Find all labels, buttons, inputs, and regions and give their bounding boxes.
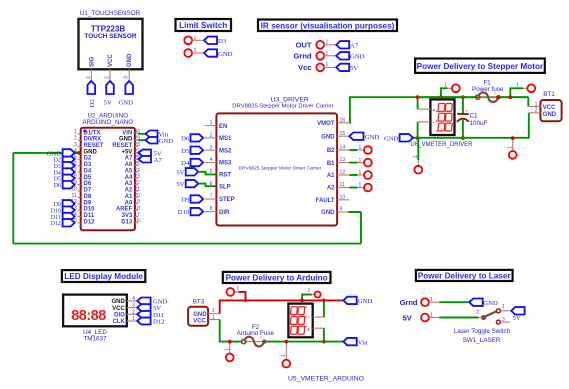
arduino left pin 1 stub — [78, 133, 81, 135]
aux connector 1 stub — [448, 87, 452, 89]
arduino GND tag on wire — [63, 149, 75, 156]
svg-text:4: 4 — [210, 157, 213, 163]
svg-text:GND: GND — [47, 151, 62, 158]
mid tag 5V to SLP — [186, 180, 199, 187]
arduino left tag D12 — [63, 219, 75, 226]
svg-text:DIO: DIO — [114, 313, 125, 319]
IR sensor stub Vcc — [324, 66, 336, 68]
svg-text:D4: D4 — [54, 170, 61, 176]
aux connector A1 circle — [226, 288, 234, 296]
svg-text:D9: D9 — [181, 197, 190, 204]
mid tag D5 to driver — [191, 147, 204, 154]
svg-text:EN: EN — [219, 124, 227, 130]
label tag D2 under pin 1 — [88, 81, 96, 94]
arduino right pin 26 stub — [135, 158, 138, 160]
svg-text:GND: GND — [321, 210, 335, 216]
svg-text:25: 25 — [134, 161, 140, 167]
switch SW1 contact 1 circle — [496, 309, 500, 313]
svg-text:22: 22 — [134, 180, 140, 186]
svg-text:14: 14 — [340, 145, 346, 151]
driver right pin 9 stub — [337, 211, 349, 213]
svg-text:20: 20 — [134, 193, 140, 199]
arduino right pin 21 stub — [135, 190, 138, 192]
svg-text:A7: A7 — [154, 157, 163, 164]
svg-text:U6_VMETER_DRIVER: U6_VMETER_DRIVER — [411, 142, 474, 148]
svg-text:10: 10 — [340, 194, 346, 200]
switch SW1 contact 3 circle — [496, 320, 500, 324]
svg-text:Vcc: Vcc — [298, 63, 311, 72]
arduino power section title box — [223, 272, 331, 283]
arduino left pin 12 stub — [78, 203, 81, 205]
limit switch pin J-GND circle — [184, 49, 192, 57]
limit switch tag GND — [204, 49, 217, 56]
arduino power Vin tag — [343, 338, 356, 345]
aux connector 2 stub — [523, 87, 527, 89]
svg-text:D7: D7 — [84, 188, 92, 194]
IR sensor section title box — [258, 20, 397, 32]
svg-text:D4: D4 — [84, 169, 92, 175]
svg-text:BT3: BT3 — [193, 299, 205, 306]
battery BT1 pin2 stub — [529, 112, 541, 114]
label tag GND under pin 3 — [125, 81, 133, 94]
touch sensor U1 body — [79, 19, 143, 70]
voltmeter U6 - pin stub — [418, 121, 431, 123]
arduino right pin 18 stub — [135, 209, 138, 211]
aux connector 2 circle — [527, 84, 535, 92]
svg-text:GND: GND — [384, 136, 399, 143]
wire BT3 GND up to red rail — [220, 300, 344, 313]
connector circle B2 — [364, 146, 372, 154]
svg-text:RESET: RESET — [112, 143, 132, 149]
aux connector A2 circle — [315, 292, 321, 298]
connector stub B2 — [358, 149, 365, 151]
svg-text:A1: A1 — [327, 173, 335, 179]
arduino 5V tag — [139, 150, 152, 157]
wire driver VMOT to power rail — [349, 97, 528, 123]
arduino left tag D11 — [63, 213, 75, 220]
svg-text:1: 1 — [413, 155, 419, 158]
wire driver A1 to connector — [349, 174, 357, 176]
svg-text:1: 1 — [240, 336, 242, 340]
svg-text:1: 1 — [502, 304, 505, 310]
laser Grnd connector circle — [421, 298, 429, 306]
svg-text:12: 12 — [340, 170, 346, 176]
svg-text:FAULT: FAULT — [316, 198, 335, 204]
voltmeter U6 digits — [438, 104, 452, 112]
aux connector A1 stub — [234, 291, 238, 293]
junction red rail / aux connector 2 — [300, 299, 304, 303]
wire to stepper aux connector 1 — [441, 88, 448, 97]
LED display tag D12 — [137, 318, 150, 325]
svg-text:GND: GND — [218, 51, 233, 58]
svg-text:GND: GND — [358, 298, 373, 305]
aux connector 1 circle — [452, 84, 460, 92]
svg-text:U5_VMETER_ARDUINO: U5_VMETER_ARDUINO — [288, 375, 364, 382]
driver right pin 15 stub — [337, 135, 349, 137]
svg-text:D5: D5 — [54, 177, 61, 183]
driver left pin 8 stub — [205, 211, 217, 213]
svg-text:TOUCH SENSOR: TOUCH SENSOR — [84, 33, 137, 40]
svg-text:2: 2 — [105, 76, 111, 79]
svg-text:2: 2 — [74, 136, 77, 142]
limit switch row1 stub — [192, 39, 204, 41]
svg-text:Power fuse: Power fuse — [472, 86, 504, 93]
driver left pin 3 stub — [205, 149, 217, 151]
aux connector 3 stub — [417, 160, 419, 166]
svg-text:A2: A2 — [327, 186, 335, 192]
battery BT1 body — [540, 100, 561, 121]
wire power rail to C1 — [462, 97, 464, 114]
arduino U2 body — [81, 128, 135, 230]
svg-text:23: 23 — [134, 174, 140, 180]
svg-text:11: 11 — [340, 182, 345, 188]
driver right pin 13 stub — [337, 162, 349, 164]
wire driver GND pin9 down to ground loop — [349, 211, 361, 213]
wire power rail corner down to BT1 pin1 — [527, 97, 529, 106]
driver right pin 12 stub — [337, 174, 349, 176]
arduino right pin 28 stub — [135, 146, 138, 148]
driver right pin 10 stub — [337, 199, 349, 201]
svg-text:CLK: CLK — [112, 319, 125, 325]
LED display section title box — [62, 270, 145, 282]
svg-text:D3: D3 — [218, 38, 227, 45]
svg-text:Power Delivery to Laser: Power Delivery to Laser — [418, 272, 512, 281]
arduino A7 tag — [139, 156, 152, 163]
junction power rail / C1 — [461, 95, 465, 99]
arduino right pin 25 stub — [135, 165, 138, 167]
svg-text:RESET: RESET — [84, 143, 104, 149]
svg-text:GND: GND — [321, 134, 335, 140]
svg-text:1: 1 — [535, 101, 538, 107]
svg-text:VCC: VCC — [193, 319, 206, 325]
mid tag D4 to driver — [191, 159, 204, 166]
svg-text:2: 2 — [260, 336, 262, 340]
mid tag D9 to driver — [191, 195, 204, 202]
svg-text:1: 1 — [507, 146, 513, 149]
driver left pin 7 stub — [205, 198, 217, 200]
svg-text:A6: A6 — [125, 162, 133, 168]
svg-text:1: 1 — [308, 288, 311, 294]
capacitor C1 top plate — [457, 113, 469, 115]
svg-text:GND: GND — [119, 137, 133, 143]
wire arduino GND to ground loop (left segment) — [13, 152, 80, 154]
stepper power section title box — [415, 59, 545, 73]
arduino left pin 4 stub — [78, 152, 81, 154]
svg-text:5V: 5V — [513, 315, 521, 322]
LED display tag 5V — [137, 304, 150, 311]
svg-text:D6: D6 — [84, 181, 92, 187]
svg-text:1: 1 — [444, 83, 447, 89]
svg-text:1: 1 — [132, 316, 135, 322]
IR sensor connector circle Vcc — [316, 64, 324, 72]
svg-text:D12: D12 — [84, 219, 96, 225]
svg-text:21: 21 — [134, 186, 140, 192]
laser Grnd stub — [429, 301, 440, 303]
wire BT1 pin2 to ground rail — [413, 113, 529, 138]
svg-text:16: 16 — [340, 117, 346, 123]
svg-text:A5: A5 — [125, 169, 133, 175]
switch SW1 common stub — [479, 317, 482, 319]
LED display tag GND — [137, 298, 150, 305]
arduino left pin 8 stub — [78, 177, 81, 179]
svg-text:MS2: MS2 — [219, 148, 232, 154]
driver GND pin15 tag — [349, 133, 363, 140]
svg-text:GND: GND — [84, 149, 98, 155]
svg-text:16: 16 — [134, 218, 140, 224]
svg-text:D5: D5 — [181, 148, 190, 155]
svg-text:D9: D9 — [84, 200, 92, 206]
capacitor C1 bottom plate — [457, 119, 469, 122]
svg-text:1: 1 — [281, 354, 287, 357]
driver U3 body — [216, 113, 337, 225]
junction red rail / aux connector 1 — [244, 299, 247, 302]
svg-text:D5: D5 — [84, 175, 92, 181]
aux connector A4 stub — [285, 342, 287, 360]
arduino left tag D9 — [63, 200, 75, 207]
wire C1 to ground rail — [462, 120, 464, 138]
wire U6 junction to fuse F1 — [418, 96, 476, 98]
svg-text:GND: GND — [159, 138, 174, 145]
svg-text:D9: D9 — [54, 202, 61, 208]
mid tag D6 to driver — [191, 134, 204, 141]
svg-text:D2: D2 — [89, 99, 96, 107]
svg-text:A7: A7 — [125, 156, 133, 162]
svg-text:GND: GND — [119, 100, 134, 107]
arduino left pin 10 stub — [78, 190, 81, 192]
IR sensor tag A7 — [336, 41, 349, 48]
wire laser 5V to switch — [439, 317, 478, 319]
svg-text:3: 3 — [124, 76, 130, 79]
svg-text:D11: D11 — [51, 215, 61, 221]
driver left pin 1 stub — [205, 125, 217, 127]
wire ground loop left vertical — [12, 153, 14, 244]
svg-text:1: 1 — [516, 83, 519, 89]
svg-text:3: 3 — [210, 145, 213, 151]
svg-text:4: 4 — [132, 296, 135, 302]
switch SW1 common contact — [481, 315, 486, 320]
laser 5V stub — [429, 317, 440, 319]
svg-text:5V: 5V — [176, 169, 184, 176]
svg-text:3: 3 — [74, 142, 77, 148]
junction power rail / aux connector 2 — [508, 95, 512, 99]
voltmeter U6 + pin stub — [418, 108, 431, 110]
voltmeter ground tag GND — [400, 134, 413, 141]
LED display pin 2 stub — [127, 313, 137, 315]
svg-text:5V: 5V — [403, 313, 412, 322]
connector stub A1 — [358, 174, 365, 176]
arduino right pin 19 stub — [135, 203, 138, 205]
svg-text:2: 2 — [212, 308, 215, 314]
svg-text:1: 1 — [210, 120, 213, 126]
svg-text:88:88: 88:88 — [71, 308, 106, 324]
svg-text:VIN: VIN — [122, 130, 132, 136]
svg-text:D2: D2 — [54, 158, 61, 164]
svg-text:Vin: Vin — [358, 339, 368, 346]
svg-text:D10: D10 — [51, 209, 61, 215]
limit switch row2 stub — [192, 52, 204, 54]
svg-text:IR sensor (visualisation purpo: IR sensor (visualisation purposes) — [261, 21, 395, 30]
battery BT3 pin 2 stub — [208, 313, 220, 315]
touch sensor pin 2 stub — [109, 69, 111, 81]
svg-text:2: 2 — [494, 91, 496, 95]
svg-text:D3: D3 — [54, 164, 61, 170]
svg-text:D2: D2 — [84, 156, 92, 162]
battery BT3 pin 1 stub — [208, 319, 220, 321]
svg-text:15: 15 — [340, 131, 346, 137]
svg-text:DRV8825 Stepper Motor Driver C: DRV8825 Stepper Motor Driver Carrier — [239, 166, 322, 172]
svg-text:SW1_LASER: SW1_LASER — [463, 337, 501, 344]
wire ground loop to driver GND pin9 — [348, 211, 361, 213]
arduino left pin 15 stub — [78, 222, 81, 224]
arduino right pin 22 stub — [135, 184, 138, 186]
svg-text:1: 1 — [359, 145, 362, 151]
arduino right pin 24 stub — [135, 171, 138, 173]
wire to stepper aux connector 2 — [510, 88, 523, 97]
svg-text:D8: D8 — [84, 194, 92, 200]
svg-text:Laser Toggle Switch: Laser Toggle Switch — [454, 328, 511, 335]
svg-text:Grnd: Grnd — [294, 52, 312, 61]
arduino Vin tag — [146, 131, 158, 138]
svg-text:GND: GND — [483, 300, 498, 307]
junction green rail / aux connector A3 — [228, 340, 232, 344]
svg-text:3: 3 — [132, 303, 135, 309]
svg-text:SLP: SLP — [219, 184, 231, 190]
svg-text:2: 2 — [476, 310, 479, 316]
wire ground rail to aux connector 3 — [417, 138, 419, 160]
arduino left tag D6 — [63, 181, 75, 188]
svg-text:Power Delivery to Arduino: Power Delivery to Arduino — [226, 274, 328, 283]
junction at arduino GND pin — [77, 151, 81, 155]
svg-text:28: 28 — [134, 142, 140, 148]
svg-text:-: - — [308, 315, 310, 321]
wire driver A2 to connector — [349, 187, 357, 189]
label tag 5V under pin 2 — [106, 81, 114, 94]
svg-text:D12: D12 — [51, 221, 61, 227]
wire 5V tag to RST pin — [198, 172, 216, 175]
wire laser Grnd to GND tag — [439, 301, 469, 303]
svg-text:VCC: VCC — [543, 105, 556, 111]
connector stub A2 — [358, 187, 365, 189]
limit switch pin J-D3 circle — [184, 36, 192, 44]
driver left pin 2 stub — [205, 137, 217, 139]
svg-text:MS3: MS3 — [219, 161, 232, 167]
fuse F2 symbol — [244, 341, 265, 343]
laser GND tag — [469, 299, 482, 306]
svg-text:13: 13 — [340, 157, 346, 163]
arduino GND tag (right) — [146, 137, 158, 144]
arduino left pin 3 stub — [78, 146, 81, 148]
svg-text:B1: B1 — [327, 161, 335, 167]
IR sensor stub Grnd — [324, 55, 336, 57]
svg-text:VCC: VCC — [108, 54, 114, 67]
svg-text:+5V: +5V — [121, 149, 132, 155]
svg-text:TM1637: TM1637 — [83, 336, 107, 343]
svg-text:A7: A7 — [350, 42, 359, 49]
arduino left pin 6 stub — [78, 165, 81, 167]
arduino left pin 9 stub — [78, 184, 81, 186]
svg-text:D13: D13 — [121, 219, 133, 225]
touch sensor pin 1 stub — [90, 69, 92, 81]
limit switch tag D3 — [204, 37, 217, 44]
junction ground rail / U6 — [416, 136, 420, 140]
svg-text:A3: A3 — [125, 181, 133, 187]
IR sensor stub OUT — [324, 44, 336, 46]
svg-text:OUT: OUT — [296, 41, 312, 50]
arduino power GND tag — [343, 297, 356, 304]
arduino left tag D2 — [63, 156, 75, 163]
svg-text:17: 17 — [134, 212, 140, 218]
junction ground rail / aux connector 4 — [511, 136, 515, 140]
svg-text:DIR: DIR — [219, 210, 230, 216]
svg-text:SIG: SIG — [89, 56, 95, 67]
svg-text:GND: GND — [111, 299, 125, 305]
arduino left pin 2 stub — [78, 139, 81, 141]
svg-text:GND: GND — [193, 312, 207, 318]
driver right pin 14 stub — [337, 149, 349, 151]
switch SW1 contact1 stub — [500, 310, 511, 312]
svg-text:RST: RST — [219, 173, 231, 179]
svg-text:VCC: VCC — [112, 306, 125, 312]
wire U5 + pin down to green rail — [323, 328, 325, 341]
svg-text:D11: D11 — [84, 213, 95, 219]
mid tag 5V to RST — [186, 168, 199, 175]
connector stub B1 — [358, 162, 365, 164]
svg-text:D6: D6 — [54, 183, 61, 189]
LED display pin 4 stub — [127, 300, 137, 302]
aux connector 4 stub — [512, 138, 514, 151]
laser power section title box — [416, 270, 513, 281]
junction red rail / U5 — [322, 299, 326, 303]
driver left pin 4 stub — [205, 162, 217, 164]
connector circle A1 — [364, 171, 372, 179]
svg-text:D4: D4 — [181, 160, 190, 167]
svg-text:GND: GND — [350, 53, 365, 60]
limit switch section title box — [176, 19, 232, 31]
driver right pin 11 stub — [337, 187, 349, 189]
voltmeter U5 - pin stub — [313, 316, 324, 318]
arduino right pin 29 stub — [135, 139, 138, 141]
svg-text:2: 2 — [210, 133, 213, 139]
svg-text:24: 24 — [134, 167, 140, 173]
arduino right pin 17 stub — [135, 216, 138, 218]
svg-text:1: 1 — [359, 182, 362, 188]
svg-text:AREF: AREF — [116, 207, 133, 213]
svg-text:D12: D12 — [153, 319, 165, 326]
svg-text:VMOT: VMOT — [317, 121, 335, 127]
IR sensor connector circle Grnd — [316, 52, 324, 60]
wire BT3 VCC down to green rail — [220, 320, 242, 342]
svg-text:1: 1 — [224, 348, 230, 351]
fuse F1 symbol — [478, 96, 499, 98]
voltmeter U5 + pin stub — [313, 327, 324, 329]
LED display U4 body — [63, 295, 127, 327]
arduino left tag D4 — [63, 168, 75, 175]
svg-text:1: 1 — [474, 91, 476, 95]
arduino left tag D10 — [63, 206, 75, 213]
wire driver B2 to connector — [349, 149, 357, 151]
svg-text:9: 9 — [340, 207, 343, 213]
svg-text:STEP: STEP — [219, 197, 235, 203]
svg-text:BT1: BT1 — [543, 91, 555, 98]
svg-text:2: 2 — [535, 108, 538, 114]
battery BT1 pin1 stub — [528, 106, 540, 108]
svg-text:D6: D6 — [181, 136, 190, 143]
junction power rail / U6 — [416, 95, 420, 99]
voltmeter U5 body — [288, 304, 312, 338]
svg-text:GND: GND — [543, 112, 557, 118]
wire fuse F1 to BT1 corner — [500, 96, 528, 98]
svg-text:A4: A4 — [125, 175, 133, 181]
